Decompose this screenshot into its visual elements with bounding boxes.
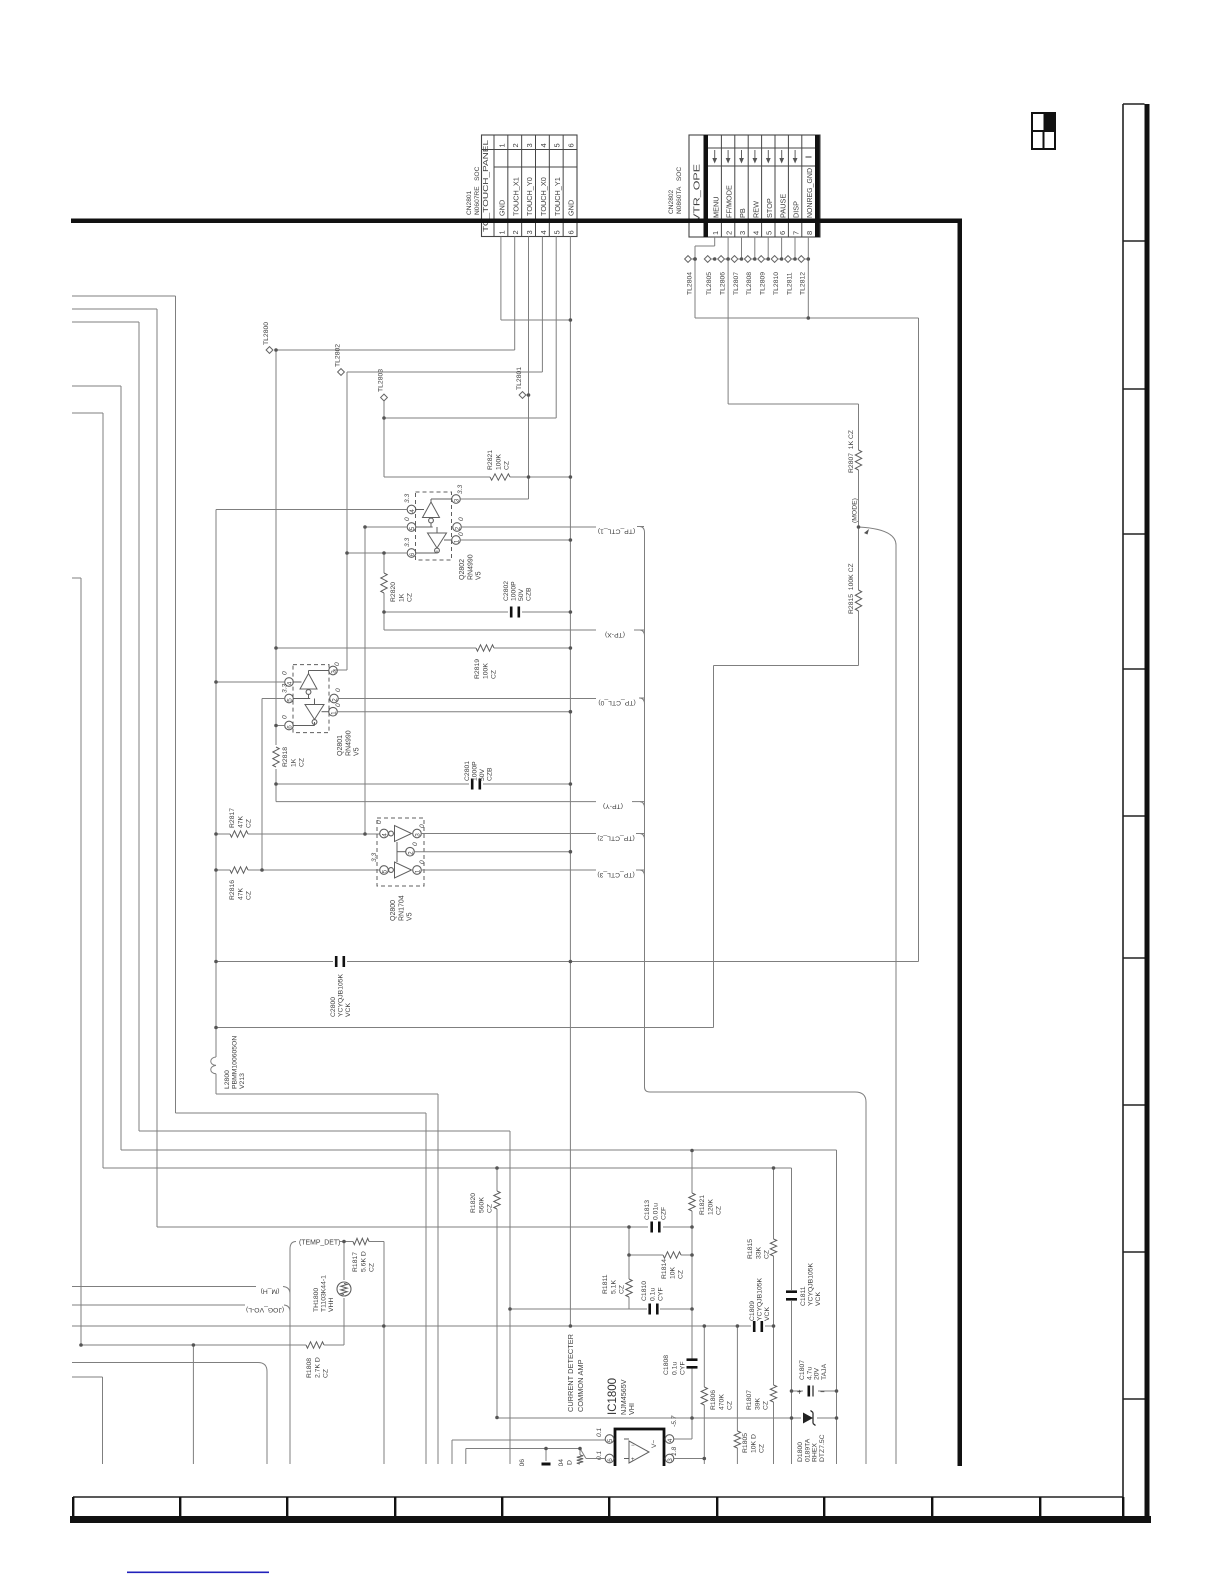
test point TL2807 [731,256,738,263]
svg-text:3.3: 3.3 [404,538,411,547]
svg-text:CZ: CZ [246,819,253,828]
wire x193 vertical [192,1345,194,1464]
footer cell divider [394,1497,396,1516]
resistor R1821 [691,1151,693,1194]
svg-text:TOUCH_X0: TOUCH_X0 [539,177,548,216]
junction [495,1166,499,1170]
wire row 1418 [497,1417,801,1419]
svg-text:R1814: R1814 [661,1259,668,1279]
wire from left edge row 3 [72,321,139,323]
junction [508,1307,512,1311]
svg-text:(TEMP_DET): (TEMP_DET) [299,1240,340,1247]
Q2800 pin2 row [414,851,570,853]
svg-text:0.01u: 0.01u [652,1203,659,1220]
svg-text:1: 1 [497,143,506,147]
junction [214,680,218,684]
thermistor TH1800 [343,1298,345,1345]
wire MODE branch vertical [895,545,897,1464]
svg-text:47K: 47K [237,887,244,900]
junction [569,646,573,650]
svg-text:TOUCH_X1: TOUCH_X1 [511,177,520,216]
junction [740,257,744,261]
junction [569,610,573,614]
junction [772,1166,776,1170]
junction [382,551,386,555]
svg-text:TH1800: TH1800 [313,1288,320,1312]
svg-text:PBMM100605ON: PBMM100605ON [232,1036,239,1089]
svg-text:CZ: CZ [764,1250,771,1259]
Q2801 pin4 row [216,681,285,683]
capacitor C2800 [216,961,333,963]
connector CN2801 TO_TOUCH_PANEL [482,135,578,237]
wire from left edge row 4 [72,385,121,387]
svg-text:2: 2 [725,231,734,235]
resistor R1811 [628,1227,630,1279]
svg-text:R2817: R2817 [229,808,236,828]
svg-text:0: 0 [376,820,383,824]
svg-text:0: 0 [458,517,465,521]
svg-text:3: 3 [738,231,747,235]
junction [363,832,367,836]
svg-text:CZ: CZ [246,891,253,900]
svg-text:1.8: 1.8 [671,1447,678,1456]
svg-text:VCK: VCK [345,1003,352,1017]
svg-text:0: 0 [412,842,419,846]
Q2801 pin6 row [276,725,285,727]
svg-text:TL2804: TL2804 [686,272,693,295]
svg-text:V213: V213 [239,1073,246,1089]
wire row 1363 [72,1362,258,1364]
junction [274,348,278,352]
page border tick [1123,1251,1145,1253]
footer table [73,1496,1123,1498]
junction [807,316,811,320]
svg-text:TOUCH_Y0: TOUCH_Y0 [525,177,534,216]
page border tick [1123,103,1145,105]
Q2802 buffer 2 [428,533,447,548]
svg-text:TL2808: TL2808 [746,272,753,295]
wire R2817 to Q2800 pin4 [361,833,380,835]
wire from left edge row 5 [72,412,103,414]
svg-text:5.6K D: 5.6K D [360,1251,367,1272]
svg-text:FF/MODE: FF/MODE [725,185,734,218]
svg-text:R1806: R1806 [710,1390,717,1410]
svg-text:−: − [631,1443,635,1449]
svg-text:Q2800: Q2800 [390,900,397,921]
svg-text:5.1K: 5.1K [610,1280,617,1294]
svg-text:CN2802: CN2802 [668,189,675,214]
svg-text:0.1u: 0.1u [671,1362,678,1375]
capacitor C1810 row 1309 [510,1308,647,1310]
main thick border right [958,219,963,1467]
svg-text:1: 1 [497,230,506,234]
svg-text:6: 6 [566,230,575,234]
capacitor C2802 [384,611,508,613]
svg-text:VCK: VCK [764,1307,771,1321]
svg-text:CURRENT DETECTER: CURRENT DETECTER [566,1334,575,1412]
svg-text:2: 2 [408,851,415,855]
wire opamp pin3 feed [674,1458,705,1460]
VTR_OPE pin 4 arrow [754,150,756,159]
svg-text:D1800: D1800 [797,1442,804,1462]
svg-text:CZ: CZ [369,1263,376,1272]
wire C1807/D1800 columns [836,1390,838,1392]
svg-text:3.3: 3.3 [371,853,378,862]
Q2802 pin5 row [365,526,407,528]
svg-text:R1805: R1805 [742,1433,749,1453]
svg-text:(M_H): (M_H) [261,1288,280,1295]
wire left bus x216 [215,510,217,1058]
test point TL2802 [338,369,345,376]
resistor R1815 [773,1168,775,1239]
svg-text:V5: V5 [476,571,483,580]
footer cell divider [716,1497,718,1516]
svg-text:C1808: C1808 [663,1355,670,1375]
svg-text:5: 5 [607,1438,614,1442]
svg-text:R1820: R1820 [470,1193,477,1213]
svg-text:R2819: R2819 [474,659,481,679]
Q2800 pin1 net TP_CTL_3 [421,869,596,871]
svg-text:5: 5 [287,698,294,702]
svg-text:CZ: CZ [299,758,306,767]
capacitor C1809 [753,1321,756,1332]
svg-text:47K: 47K [237,815,244,828]
svg-text:2: 2 [455,526,462,530]
junction [342,1240,346,1244]
svg-text:+: + [797,1388,802,1397]
svg-text:0.1u: 0.1u [649,1288,656,1301]
Q2800 pin2 internal [396,842,398,862]
svg-text:+: + [631,1457,635,1463]
junction [382,416,386,420]
resistor R1807 [773,1326,775,1385]
junction [569,960,573,964]
svg-text:0189TA: 0189TA [804,1438,811,1462]
svg-text:6: 6 [607,1458,614,1462]
svg-text:470K: 470K [718,1394,725,1410]
VTR_OPE pin 6 arrow [781,150,783,159]
wire from left edge row 6 [72,577,81,579]
svg-text:CZ: CZ [716,1206,723,1215]
svg-text:RN1704: RN1704 [398,895,405,921]
page border tick [1123,1398,1145,1400]
svg-text:4.7u: 4.7u [806,1367,813,1380]
wire TL2801 junction [526,394,529,396]
svg-text:Q2801: Q2801 [337,735,344,756]
capacitor C1807 [792,1390,804,1392]
junction [274,646,278,650]
svg-text:4: 4 [382,833,389,837]
wire from left edge row 1 to node col [72,295,176,297]
svg-text:4: 4 [539,230,548,234]
junction [495,1416,499,1420]
junction [79,1343,83,1347]
Q2801 buffer 2 [305,705,324,720]
CN2801 pin5 lead to TL2803 [555,237,557,419]
Q2802 pin6 row [347,552,407,554]
svg-text:5: 5 [409,526,416,530]
footer cell divider [1122,1497,1124,1516]
resistor R1820 [496,1168,498,1191]
svg-text:R1808: R1808 [306,1358,313,1378]
VTR_OPE pin 7 arrow [794,150,796,159]
svg-text:5: 5 [765,231,774,235]
VTR_OPE pin8 lead [807,237,809,318]
test point TL2812 [798,256,805,263]
svg-text:VCK: VCK [815,1292,822,1306]
svg-text:CZ: CZ [487,1204,494,1213]
svg-text:6: 6 [566,143,575,147]
junction [713,257,717,261]
svg-text:CYF: CYF [680,1361,687,1375]
svg-text:N0860TA SOC: N0860TA SOC [676,167,683,214]
svg-text:TL2805: TL2805 [706,272,713,295]
resistor R1806 [703,1326,705,1387]
svg-text:4: 4 [751,231,760,235]
svg-text:2: 2 [511,230,520,234]
wire MODE vertical R2807/R2815 [858,404,860,450]
svg-text:8: 8 [805,231,814,235]
svg-text:R2820: R2820 [390,582,397,602]
opamp pins [605,1435,614,1444]
net label JOG_VO-L row [72,1304,245,1306]
Q2802 pin1 row [460,539,570,541]
junction [569,850,573,854]
junction [260,868,264,872]
Q2802 buffer 1 [423,502,440,518]
junction [690,1307,694,1311]
svg-text:10K: 10K [669,1266,676,1279]
svg-text:TL2812: TL2812 [800,272,807,295]
svg-text:50V: 50V [518,588,525,601]
svg-text:−: − [820,1388,825,1397]
svg-text:VHI: VHI [627,1403,636,1415]
wire L2800 bottom [215,1074,217,1094]
resistor R1804 stub [579,1449,581,1456]
junction [790,1416,794,1420]
capacitor C1806 stub [545,1449,547,1462]
footer cell divider [286,1497,288,1516]
VTR_OPE pin 2 arrow [727,150,729,159]
svg-text:R2815 100K CZ: R2815 100K CZ [848,563,855,614]
test point TL2811 [785,256,792,263]
svg-text:3: 3 [667,1458,674,1462]
svg-text:C1807: C1807 [799,1360,806,1380]
capacitor C1811 [791,1168,793,1290]
Q2802 pin4 input row [216,509,407,511]
net hook bus vertical [644,532,646,1087]
svg-text:CZ: CZ [759,1444,766,1453]
svg-text:R1807: R1807 [746,1390,753,1410]
svg-text:R2818: R2818 [282,747,289,767]
svg-text:5: 5 [553,143,562,147]
junction [772,1324,776,1328]
junction [835,1389,839,1393]
svg-text:TO_TOUCH_PANEL: TO_TOUCH_PANEL [481,140,490,232]
transistor Q2802 RN4990 [416,492,452,560]
junction [382,1324,386,1328]
svg-text:C2802: C2802 [503,581,510,601]
CN2801 pin3 lead to TL2801 [528,237,530,500]
svg-text:N0607RE SOC: N0607RE SOC [474,166,481,215]
svg-text:1000P: 1000P [511,581,518,601]
junction [569,710,573,714]
Q2800 buffer 1 [389,831,394,836]
test point TL2806 [718,256,725,263]
svg-text:GND: GND [498,200,507,216]
svg-text:20V: 20V [814,1367,821,1380]
resistor R1814 row [629,1254,663,1256]
svg-text:7: 7 [792,231,801,235]
diode D1800 zener [803,1413,813,1424]
connector CN2802 VTR_OPE [689,135,820,237]
net TP-Y row [276,801,596,803]
Q2801 pin2 net TP_CTL_0 [338,698,596,700]
svg-text:1K: 1K [398,593,405,602]
svg-text:(JOG_VO-L): (JOG_VO-L) [246,1306,284,1313]
junction [766,257,770,261]
net TP-X row [383,612,385,630]
junction [214,1026,218,1030]
junction [693,257,697,261]
svg-text:COMMON AMP: COMMON AMP [576,1359,585,1412]
wire row 1345 [81,1344,306,1346]
svg-text:TL2806: TL2806 [720,272,727,295]
Q2802 pin3 row [460,498,528,500]
test point TL2805 [704,256,711,263]
footer cell divider [72,1497,74,1516]
svg-text:100K: 100K [482,663,489,679]
transistor Q2801 RN4990 [293,665,329,733]
wire row 1227 bus [157,1226,648,1228]
svg-text:C1811: C1811 [800,1286,807,1306]
junction [690,1253,694,1257]
junction [807,257,811,261]
svg-text:120K: 120K [707,1199,714,1215]
VTR_OPE pin 8 arrow [806,156,812,158]
svg-text:(TP_CTL_1): (TP_CTL_1) [598,528,635,535]
svg-text:0: 0 [282,671,289,675]
junction [835,1416,839,1420]
junction [345,551,349,555]
wire opamp pin4 feed [674,1438,692,1440]
opamp triangle [629,1441,649,1463]
Q2800 buffer 2 [389,868,394,873]
footer cell divider [501,1497,503,1516]
junction [274,782,278,786]
svg-text:TOUCH_Y1: TOUCH_Y1 [553,177,562,216]
svg-text:1: 1 [454,539,461,543]
CN2801 pin2 lead to TL2800 [514,237,516,351]
svg-text:NONREG_GND: NONREG_GND [805,168,814,218]
test point TL2803 [381,394,388,401]
svg-text:100K: 100K [495,454,502,470]
VTR_OPE pin 5 arrow [767,150,769,159]
junction [527,393,531,397]
page border tick [1123,388,1145,390]
net TEMP_DET row [290,1242,296,1250]
footer cell divider [1039,1497,1041,1516]
svg-text:0: 0 [334,662,341,666]
wire from left edge row 2 [72,308,157,310]
junction [214,868,218,872]
svg-text:3: 3 [454,498,461,502]
svg-text:1K: 1K [290,758,297,767]
test point TL2808 [744,256,751,263]
junction [790,1389,794,1393]
svg-text:(TP_CTL_3): (TP_CTL_3) [597,871,634,878]
resistor R2820 [383,553,385,573]
footer cell divider [931,1497,933,1516]
svg-text:CZ: CZ [619,1285,626,1294]
junction [627,1225,631,1229]
junction [214,832,218,836]
svg-text:R1811: R1811 [602,1274,609,1294]
VTR_OPE thick bar right [815,135,820,237]
svg-text:TL2807: TL2807 [733,272,740,295]
page border tick [1123,1104,1145,1106]
svg-text:CZ: CZ [504,461,511,470]
svg-text:0: 0 [419,860,426,864]
page border tick [1123,957,1145,959]
junction [569,1324,573,1328]
svg-text:TAJA: TAJA [821,1363,828,1380]
svg-text:YCYQJB105K: YCYQJB105K [808,1262,815,1306]
wire TL2803 stub [383,401,385,477]
resistor R2815 [855,590,861,611]
svg-text:3: 3 [331,670,338,674]
VTR_OPE thick bar left [704,135,709,237]
svg-text:CZB: CZB [525,587,532,601]
Q2801 buffer 1 [300,674,317,690]
svg-text:0: 0 [335,688,342,692]
junction [569,318,573,322]
junction [274,724,278,728]
wire opamp pin5 feed [451,1440,453,1464]
junction [569,475,573,479]
svg-text:YCYQJB105K: YCYQJB105K [338,973,345,1017]
svg-text:STOP: STOP [765,198,774,218]
svg-text:CZ: CZ [763,1401,770,1410]
footer bottom bar [70,1516,1151,1523]
svg-text:YCYQJB105K: YCYQJB105K [757,1277,764,1321]
junction [527,475,531,479]
svg-text:VTR_OPE: VTR_OPE [693,163,702,222]
test point TL2809 [758,256,765,263]
svg-text:6: 6 [287,725,294,729]
svg-text:(TP-X): (TP-X) [605,631,625,638]
svg-text:39K: 39K [754,1397,761,1410]
footer cell divider [823,1497,825,1516]
junction [736,1324,740,1328]
svg-text:CZ: CZ [727,1401,734,1410]
svg-text:3: 3 [525,143,534,147]
svg-text:TL2801: TL2801 [516,367,523,390]
capacitor C1813 [650,1222,653,1233]
wire MODE branch curve [859,527,897,545]
page mark checker symbol [1032,113,1055,149]
svg-text:R2821: R2821 [487,450,494,470]
svg-text:DTZ7.5C: DTZ7.5C [819,1434,826,1462]
svg-text:3.3: 3.3 [282,684,289,693]
svg-text:MENU: MENU [711,197,720,219]
svg-text:C2801: C2801 [464,761,471,781]
svg-text:0: 0 [404,517,411,521]
inductor L2800 [211,1057,216,1065]
svg-text:4: 4 [409,509,416,513]
svg-text:33K: 33K [755,1246,762,1259]
svg-text:CZF: CZF [661,1207,668,1220]
